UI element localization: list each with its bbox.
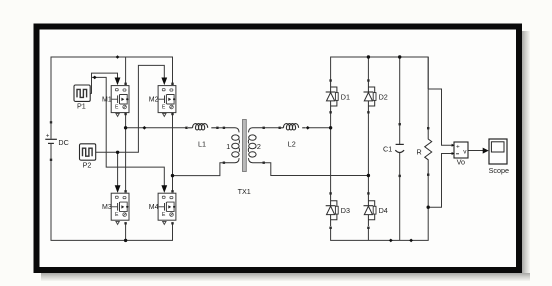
- R top port: [427, 127, 429, 129]
- wire: D2 top drop: [367, 57, 369, 80]
- svg-text:C1: C1: [383, 145, 392, 154]
- scope block: [489, 139, 507, 164]
- wire: D2-D4 leg: [367, 113, 369, 193]
- D1 bottom port: [329, 111, 331, 113]
- svg-text:M1: M1: [102, 97, 112, 104]
- pulse generator P2: [80, 144, 96, 160]
- M2 bottom port: [171, 113, 173, 115]
- junction dot bottom rail diamond 1: [389, 239, 393, 243]
- junction dot L2 leg: [329, 126, 332, 129]
- junction dot P1 branch diamond: [93, 76, 97, 80]
- wire: P2 to M2 gate: [118, 65, 165, 152]
- TX1 ports: [223, 127, 225, 129]
- DC voltage source: [45, 121, 57, 161]
- wire: D3 bottom to rail: [331, 176, 429, 241]
- wire: TX1 primary bottom to M2-M4 leg: [173, 163, 224, 176]
- M1 m-port triangle: [116, 113, 119, 116]
- M4 bottom port: [171, 222, 173, 224]
- D2 bottom port: [367, 111, 369, 113]
- L1 left port: [185, 127, 187, 129]
- diode D1: [326, 81, 339, 113]
- svg-text:P2: P2: [83, 161, 92, 170]
- mosfet M1: [111, 86, 129, 113]
- junction dot M1 rail ... diamond: [116, 55, 120, 59]
- wire: M1-M3 leg: [125, 113, 127, 192]
- M4 m-port triangle: [163, 221, 166, 224]
- diode D2: [364, 81, 377, 113]
- junction dot P2 tee: [116, 151, 119, 154]
- wire: left top rail: [51, 57, 173, 121]
- junction dot mid-left diamond: [142, 126, 146, 130]
- gate arrow into M4: [161, 185, 167, 193]
- svg-text:DC: DC: [58, 138, 68, 147]
- diode D3: [326, 194, 339, 226]
- L1 right port: [216, 127, 218, 129]
- svg-text:Scope: Scope: [489, 166, 509, 175]
- svg-text:1: 1: [226, 142, 230, 151]
- D3 top port: [329, 192, 331, 194]
- M4 top port: [171, 190, 173, 192]
- M1 bottom port: [124, 113, 126, 115]
- svg-text:+: +: [456, 144, 460, 151]
- junction dot D4 leg: [367, 174, 370, 177]
- D3 bottom port: [329, 227, 331, 229]
- C1 bottom port: [399, 175, 401, 177]
- wire: M2-M4 leg: [172, 113, 174, 192]
- wire: C1 inner top: [399, 125, 401, 145]
- junction dot R bottom: [427, 206, 430, 209]
- gate arrow into M3: [115, 185, 121, 193]
- inductor L2: [281, 124, 306, 130]
- wire: D1-D3 leg: [330, 113, 332, 193]
- arrow into scope: [483, 148, 489, 154]
- wire: M1 top drop: [125, 57, 127, 83]
- D4 bottom port: [367, 227, 369, 229]
- wire: TX1 secondary top to L2: [264, 127, 280, 129]
- pulse generator P1: [74, 85, 90, 101]
- inductor L1: [188, 124, 216, 130]
- junction dot M1 leg mid: [124, 126, 127, 129]
- wire: TX1 secondary bottom to D2-D4 leg: [264, 163, 369, 176]
- M3 m-port triangle: [116, 221, 119, 224]
- black border frame: [37, 27, 520, 271]
- wire: right top rail: [331, 57, 429, 128]
- D4 top port: [367, 192, 369, 194]
- TX1 primary winding: [225, 128, 240, 163]
- svg-text:D2: D2: [379, 92, 388, 101]
- mosfet M2: [158, 86, 176, 113]
- wire: L2 to D1-D3 leg: [308, 127, 331, 129]
- wire: DC source bottom to bottom rail: [51, 161, 126, 240]
- svg-text:L1: L1: [198, 139, 206, 148]
- M1 top port: [124, 83, 126, 85]
- gate arrow into M1: [115, 78, 121, 86]
- wire: P1 output to M1 gate: [90, 73, 118, 93]
- wire: P2 output to junction: [95, 151, 118, 153]
- wire: Vo minus wire: [428, 154, 452, 208]
- L2 left port: [279, 127, 281, 129]
- wire: P1 branch to M4 gate: [92, 77, 165, 185]
- junction dot M2 leg mid: [171, 174, 174, 177]
- wire: C1 inner bottom: [399, 153, 401, 176]
- svg-text:TX1: TX1: [238, 187, 251, 196]
- wire: Vo output to scope: [468, 150, 483, 152]
- svg-text:2: 2: [257, 142, 261, 151]
- junction dot D2 rail: [367, 55, 370, 58]
- svg-text:L2: L2: [288, 139, 296, 148]
- diode D4: [364, 194, 377, 226]
- capacitor C1: [395, 144, 404, 152]
- wire: R top feed: [427, 57, 429, 89]
- wire: C1 bottom drop: [399, 177, 401, 241]
- L2 right port: [306, 126, 310, 130]
- voltage measurement Vo: [452, 142, 468, 158]
- wire: Vo plus wire: [428, 89, 452, 145]
- svg-text:P1: P1: [77, 102, 86, 111]
- svg-text:M2: M2: [149, 97, 159, 104]
- TX1 secondary winding: [248, 128, 263, 163]
- svg-text:R: R: [417, 148, 422, 157]
- svg-text:D1: D1: [341, 92, 350, 101]
- resistor R: [425, 129, 432, 175]
- svg-text:M3: M3: [102, 204, 112, 211]
- transformer TX1: [223, 120, 265, 172]
- M2 top port: [171, 83, 173, 85]
- D1 top port: [329, 79, 331, 81]
- wire: left bottom rail right part: [126, 223, 173, 241]
- wire: L1 to TX1 primary top: [217, 127, 224, 129]
- junction dot C1 rail: [398, 55, 401, 58]
- junction dot bottom rail diamond 2: [409, 239, 413, 243]
- wire: bridge mid to L1: [126, 127, 186, 129]
- D2 top port: [367, 79, 369, 81]
- junction dot M3 bottom rail: [124, 239, 127, 242]
- M3 top port: [124, 190, 126, 192]
- M2 m-port triangle: [163, 113, 166, 116]
- TX1 core: [243, 120, 247, 172]
- wire: P2 junction down to M3 gate: [117, 152, 119, 185]
- mosfet M4: [158, 193, 176, 220]
- svg-text:M4: M4: [149, 204, 159, 211]
- svg-text:D4: D4: [379, 206, 388, 215]
- svg-text:D3: D3: [341, 206, 350, 215]
- gate arrow into M2: [161, 78, 167, 86]
- C1 top port: [399, 123, 401, 125]
- wire: M3 bottom drop: [125, 223, 127, 241]
- R bottom port: [427, 174, 429, 176]
- wire: D4 bottom drop: [367, 229, 369, 241]
- M3 bottom port: [124, 222, 126, 224]
- wire: C1 top drop: [399, 57, 401, 124]
- svg-text:+: +: [46, 133, 50, 139]
- svg-text:Vo: Vo: [457, 158, 465, 167]
- mosfet M3: [111, 193, 129, 220]
